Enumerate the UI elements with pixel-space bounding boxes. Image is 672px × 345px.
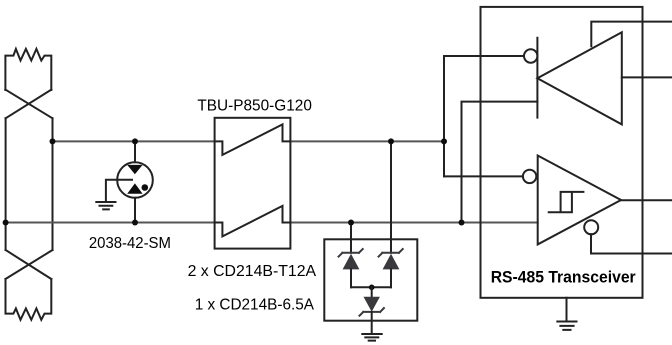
receiver hysteresis symbol: [549, 192, 584, 212]
node GDT to top bus: [132, 138, 138, 144]
node driver A on bottom bus: [459, 220, 465, 226]
TBU channel 1 element: [215, 124, 291, 154]
wire TVS left tap from bottom bus: [350, 223, 352, 253]
wire GDT ground tap: [106, 180, 132, 202]
ground (TVS): [362, 334, 381, 341]
svg-text:RS-485 Transceiver: RS-485 Transceiver: [491, 268, 636, 287]
receiver enable bubble: [584, 220, 598, 234]
resistor R1 (top termination, twisted pair): [5, 49, 51, 90]
op-amp driver triangle: [537, 32, 621, 124]
gas discharge tube GDT 2038-42-SM: [117, 141, 153, 222]
node TVS left tap: [348, 220, 354, 226]
wire twisted pair right conductor: [52, 118, 54, 250]
TVS diode D2 (right, CD214B-T12A): [379, 249, 403, 287]
wire TVS right tap from top bus: [390, 141, 392, 252]
wire TVS common connector: [351, 286, 391, 288]
TVS array box: [324, 239, 417, 320]
wire receiver inverting input from top bus node: [444, 175, 523, 177]
wire top bus B right segment: [290, 140, 444, 142]
resistor R2 (bottom termination, twisted pair): [6, 279, 52, 320]
RS-485 transceiver U2 box: [481, 7, 643, 298]
op-amp receiver triangle: [538, 156, 621, 245]
receiver inverting bubble: [523, 170, 536, 183]
wire transceiver ground stem: [566, 298, 568, 322]
wire bottom bus A right segment: [290, 222, 537, 224]
svg-text:TBU-P850-G120: TBU-P850-G120: [197, 97, 312, 114]
node driver B on top bus: [441, 138, 447, 144]
ground (transceiver): [557, 322, 576, 330]
driver inverting bubble: [524, 49, 537, 62]
driver output bar: [536, 38, 538, 118]
wire driver inverting output B to top bus: [444, 56, 524, 176]
node top bus at twisted pair: [50, 138, 56, 144]
wire driver enable DE: [591, 22, 672, 47]
wire twisted pair bottom crossover: [6, 250, 53, 279]
wire driver noninverting output A to bottom bus: [462, 102, 538, 223]
svg-text:2038-42-SM: 2038-42-SM: [89, 235, 171, 252]
TVS diode D3 (bottom, CD214B-6.5A): [360, 287, 384, 334]
wire driver input D: [622, 76, 672, 78]
wire twisted pair left conductor: [5, 118, 7, 250]
node TVS right tap: [388, 138, 394, 144]
node bottom bus at twisted pair: [3, 220, 9, 226]
wire bottom bus A left segment: [6, 222, 215, 224]
wire receiver output R: [621, 199, 672, 201]
svg-text:2 x CD214B-T12A: 2 x CD214B-T12A: [188, 263, 317, 280]
node TVS common: [369, 285, 375, 291]
node GDT to bottom bus: [132, 220, 138, 226]
wire twisted pair top crossover: [5, 90, 52, 119]
wire top bus B left segment: [53, 140, 215, 142]
TVS diode D1 (left, CD214B-T12A): [339, 249, 363, 287]
wire receiver enable RE: [591, 234, 672, 253]
svg-text:1 x CD214B-6.5A: 1 x CD214B-6.5A: [195, 296, 315, 313]
TBU channel 2 element: [215, 206, 291, 237]
TBU U1 box: [215, 118, 291, 249]
ground (GDT): [96, 202, 115, 209]
